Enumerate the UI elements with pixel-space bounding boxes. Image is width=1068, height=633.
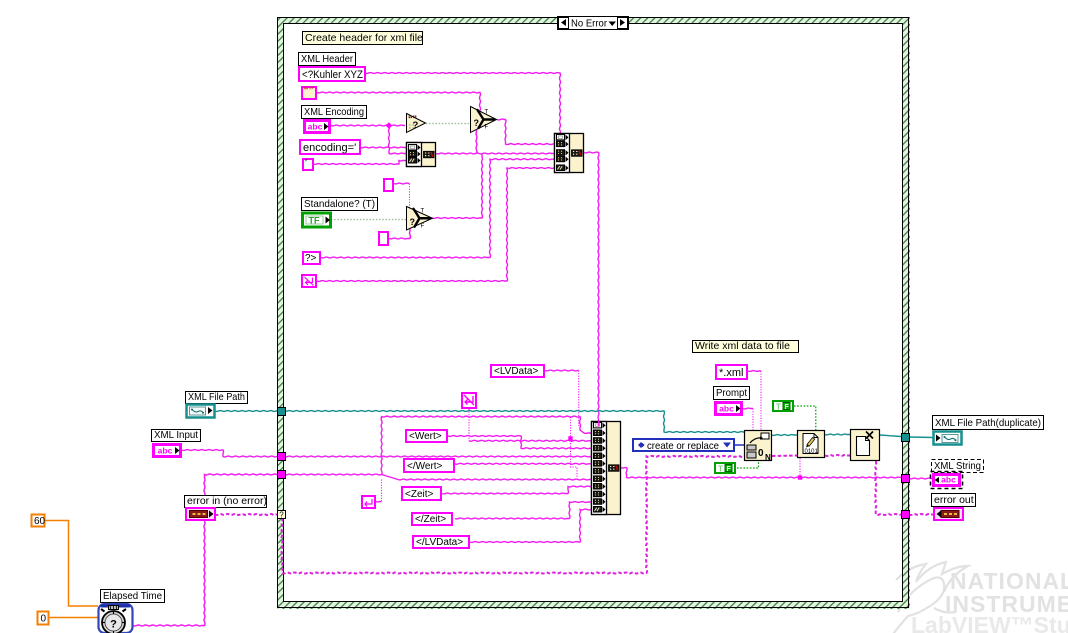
svg-text:No Error: No Error bbox=[571, 19, 608, 30]
svg-text:abc: abc bbox=[308, 122, 323, 132]
svg-text:“”: “” bbox=[304, 86, 314, 97]
svg-text:T: T bbox=[776, 403, 781, 412]
svg-text:</LVData>: </LVData> bbox=[416, 537, 463, 548]
svg-text:*.xml: *.xml bbox=[719, 367, 743, 379]
svg-text:error out: error out bbox=[934, 494, 974, 506]
svg-text:XML Input: XML Input bbox=[154, 429, 198, 441]
svg-text:error in (no error): error in (no error) bbox=[187, 495, 267, 507]
svg-text:Prompt: Prompt bbox=[716, 387, 747, 399]
svg-text:F: F bbox=[485, 125, 489, 131]
svg-text:0: 0 bbox=[758, 448, 764, 459]
svg-text:?: ? bbox=[410, 217, 416, 227]
svg-text:<Zeit>: <Zeit> bbox=[405, 489, 434, 500]
svg-text:?>: ?> bbox=[305, 253, 317, 264]
svg-text:XML File Path: XML File Path bbox=[188, 391, 245, 403]
svg-text:XML String: XML String bbox=[934, 460, 981, 472]
svg-text:encoding=': encoding=' bbox=[303, 142, 356, 154]
svg-text:': ' bbox=[305, 158, 307, 169]
svg-text:</Wert>: </Wert> bbox=[407, 461, 443, 472]
svg-text:F: F bbox=[785, 404, 790, 411]
svg-text:T: T bbox=[485, 110, 489, 116]
svg-text:N: N bbox=[765, 453, 771, 462]
svg-text:<Wert>: <Wert> bbox=[409, 431, 442, 442]
svg-text:0: 0 bbox=[41, 614, 47, 625]
svg-text:?: ? bbox=[474, 118, 480, 128]
svg-text:Write xml data to file: Write xml data to file bbox=[695, 340, 790, 352]
svg-text:Create header for xml file: Create header for xml file bbox=[305, 32, 423, 44]
svg-text:Standalone? (T): Standalone? (T) bbox=[304, 198, 375, 210]
svg-text:abc: abc bbox=[158, 446, 173, 456]
svg-text:abc: abc bbox=[719, 404, 734, 414]
svg-text:<LVData>: <LVData> bbox=[494, 366, 538, 377]
svg-text:Elapsed Time: Elapsed Time bbox=[103, 590, 162, 602]
svg-text:</Zeit>: </Zeit> bbox=[415, 514, 446, 525]
svg-text:XML Header: XML Header bbox=[301, 53, 353, 65]
svg-text:<?Kuhler XYZ: <?Kuhler XYZ bbox=[302, 69, 363, 81]
svg-text:?: ? bbox=[110, 619, 117, 631]
svg-text:60: 60 bbox=[34, 516, 46, 527]
svg-text:abc: abc bbox=[941, 475, 956, 485]
svg-text:XML Encoding: XML Encoding bbox=[304, 106, 364, 118]
svg-text:T: T bbox=[421, 208, 425, 214]
svg-text:LabVIEW™Stud: LabVIEW™Stud bbox=[911, 612, 1068, 633]
svg-text:0101: 0101 bbox=[805, 449, 819, 455]
svg-text:F: F bbox=[421, 223, 425, 229]
svg-text:create or replace: create or replace bbox=[647, 440, 719, 452]
svg-text:XML File Path(duplicate): XML File Path(duplicate) bbox=[935, 417, 1041, 429]
svg-text:F: F bbox=[727, 466, 732, 473]
svg-text:TF: TF bbox=[309, 216, 320, 226]
svg-text:T: T bbox=[718, 465, 723, 474]
svg-text:?: ? bbox=[279, 511, 284, 520]
